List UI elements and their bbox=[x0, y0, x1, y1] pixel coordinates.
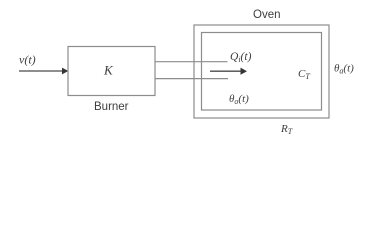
pipe lower wire bbox=[155, 78, 228, 80]
svg-text:Burner: Burner bbox=[94, 101, 129, 113]
burner box bbox=[68, 47, 155, 96]
svg-text:θo(t): θo(t) bbox=[229, 93, 249, 106]
pipe upper wire bbox=[155, 61, 228, 63]
heat flow arrow Q bbox=[210, 70, 241, 72]
oven inner wall bbox=[202, 33, 322, 111]
svg-text:K: K bbox=[103, 63, 114, 78]
svg-text:θa(t): θa(t) bbox=[334, 63, 354, 76]
svg-text:Qi(t): Qi(t) bbox=[230, 51, 252, 64]
oven outer wall bbox=[194, 25, 329, 118]
svg-text:v(t): v(t) bbox=[19, 53, 36, 67]
wire input arrow bbox=[19, 70, 62, 72]
svg-text:Oven: Oven bbox=[253, 9, 281, 21]
